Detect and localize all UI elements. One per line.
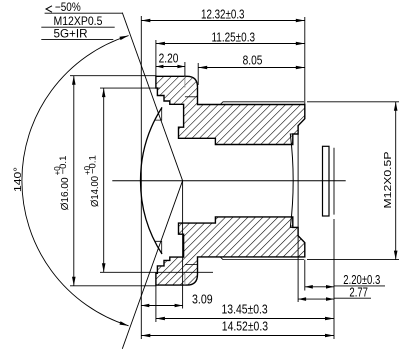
- underline 1: [45, 12, 123, 14]
- extension line flange front top: [155, 40, 157, 76]
- dim M12X0.5P: [395, 102, 397, 260]
- ext M12 bottom: [307, 259, 399, 261]
- svg-text:11.25±0.3: 11.25±0.3: [212, 30, 256, 44]
- ext dia14 bottom: [100, 271, 213, 273]
- dome rim edge bottom: [155, 241, 162, 254]
- label M12X0.5P: [382, 152, 394, 209]
- ext dia16 top: [70, 75, 157, 77]
- svg-text:−0.1: −0.1: [58, 156, 69, 175]
- 140 deg arc: [22, 36, 129, 326]
- extension line right face top: [304, 17, 306, 105]
- image plane extension line: [333, 148, 335, 215]
- label dia14: [83, 155, 101, 207]
- dim 2.77: [298, 298, 334, 300]
- svg-text:14.52±0.3: 14.52±0.3: [222, 319, 268, 333]
- svg-text:140°: 140°: [12, 167, 24, 192]
- dim 3.09: [141, 305, 182, 307]
- dim 12.32±0.3: [141, 20, 304, 22]
- label 140deg: [12, 167, 24, 192]
- dim dia16: [73, 76, 75, 286]
- lower FOV cone line: [122, 181, 182, 349]
- svg-text:Ø16.00: Ø16.00: [59, 177, 71, 210]
- svg-text:Ø14.00: Ø14.00: [89, 176, 101, 207]
- dome rim edge top: [155, 107, 162, 120]
- svg-text:−50%: −50%: [55, 0, 81, 14]
- lens barrel lower wall section: [156, 217, 305, 285]
- dim 2.20±0.3 rear: [305, 286, 334, 288]
- entrance pupil extension line: [182, 181, 184, 309]
- svg-text:2.77: 2.77: [349, 285, 368, 299]
- optical center line: [112, 180, 345, 182]
- underline 2: [41, 26, 114, 28]
- leader 2.20±0.3: [334, 285, 385, 287]
- rear wall inner face / 2.77 extension line: [297, 126, 299, 302]
- arc arrowhead top: [120, 36, 129, 41]
- lens barrel upper wall section: [156, 76, 305, 144]
- cap rear tuck edge top: [185, 96, 198, 98]
- ext dia14 top: [100, 87, 160, 89]
- ext dia16 bottom: [70, 285, 157, 287]
- dim 8.05: [198, 67, 305, 69]
- extension line collar face: [197, 63, 199, 85]
- svg-text:12.32±0.3: 12.32±0.3: [201, 7, 245, 21]
- dim 13.45±0.3: [156, 318, 334, 320]
- upper FOV cone line: [122, 13, 182, 181]
- dim dia14: [103, 88, 105, 272]
- svg-text:13.45±0.3: 13.45±0.3: [222, 302, 268, 316]
- cap-barrel joint line bottom: [184, 274, 186, 285]
- underline 3: [41, 38, 113, 40]
- svg-text:−0.1: −0.1: [88, 155, 99, 174]
- ext rear face bottom: [304, 260, 306, 291]
- ext M12 top: [307, 101, 399, 103]
- arc arrowhead bottom: [120, 321, 129, 326]
- cap rear tuck edge bottom: [185, 264, 198, 266]
- dim 2.20: [156, 66, 185, 68]
- leader 2.77: [334, 297, 371, 299]
- extension line flange rear top: [184, 62, 186, 76]
- thread crest line top: [220, 102, 304, 105]
- dim 11.25±0.3: [156, 43, 305, 45]
- svg-text:M12X0.5P: M12X0.5P: [382, 152, 394, 209]
- front dome lens element: [140, 107, 162, 254]
- svg-text:3.09: 3.09: [192, 293, 213, 307]
- label dia16: [53, 156, 71, 211]
- svg-text:5G+IR: 5G+IR: [54, 26, 88, 40]
- front vertex reference line: [140, 16, 142, 339]
- thread crest line bottom: [220, 257, 304, 260]
- IR filter: [323, 146, 330, 216]
- ext flange front bottom: [155, 286, 157, 322]
- rear lens element: [290, 134, 298, 227]
- cap-barrel joint line top: [184, 76, 186, 87]
- label arrow <: [46, 6, 52, 12]
- svg-text:8.05: 8.05: [243, 54, 263, 68]
- svg-text:2.20: 2.20: [159, 52, 179, 66]
- dim 14.52±0.3: [141, 335, 334, 337]
